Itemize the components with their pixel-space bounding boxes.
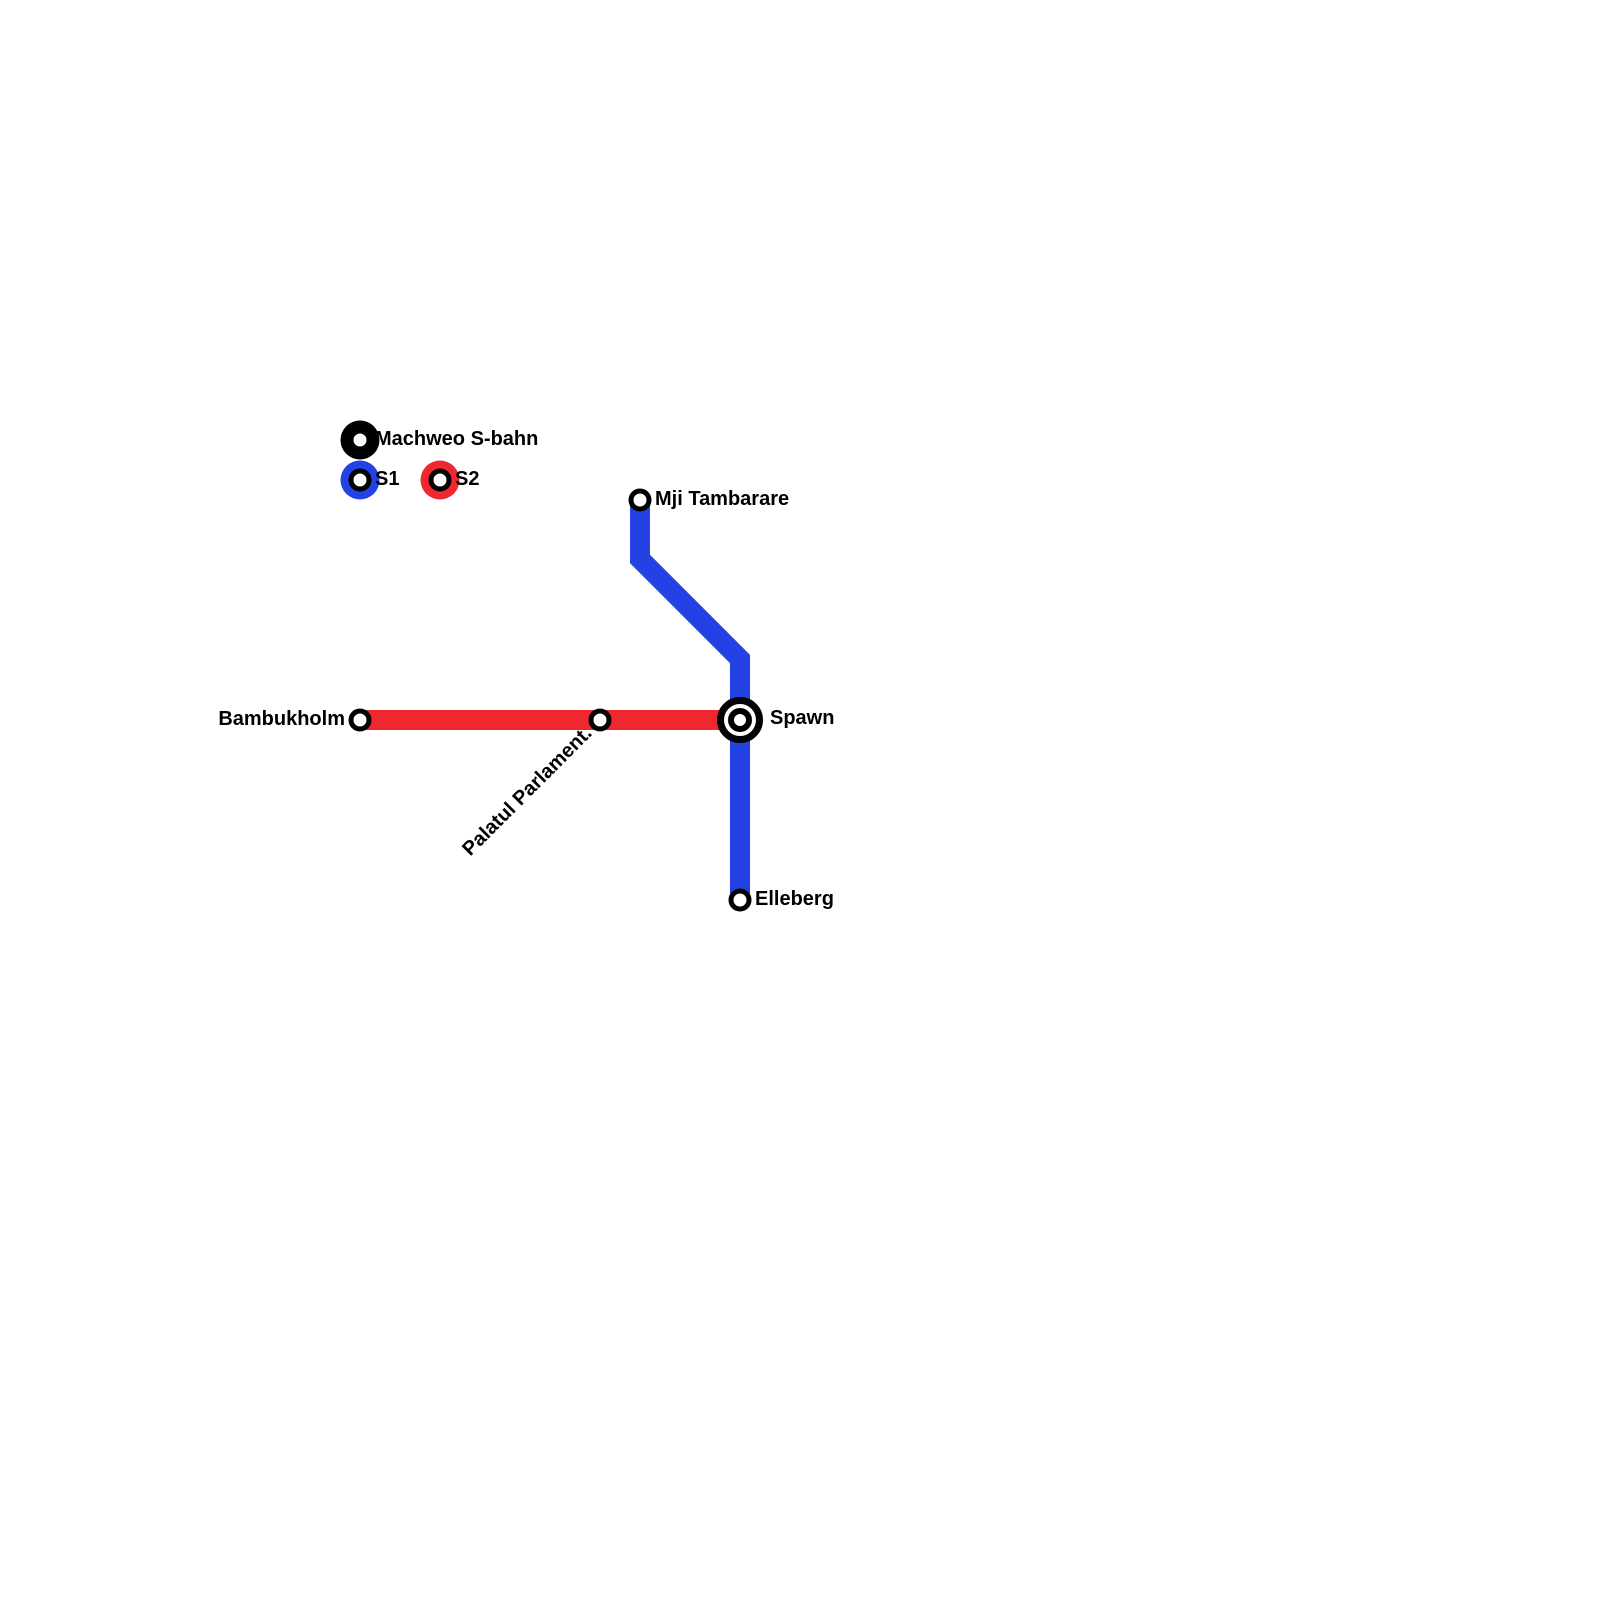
svg-text:Machweo S-bahn: Machweo S-bahn bbox=[375, 428, 538, 450]
svg-text:Mji Tambarare: Mji Tambarare bbox=[655, 488, 789, 510]
station Palatul Parlament marker bbox=[591, 711, 609, 729]
legend line S1 icon blue disc bbox=[341, 461, 380, 500]
svg-text:Bambukholm: Bambukholm bbox=[218, 708, 345, 730]
legend network icon black disc bbox=[341, 421, 380, 460]
svg-text:Elleberg: Elleberg bbox=[755, 888, 834, 910]
svg-text:S2: S2 bbox=[455, 468, 479, 490]
station Mji Tambarare marker bbox=[631, 491, 649, 509]
station Spawn interchange marker bbox=[721, 701, 760, 740]
station Elleberg marker bbox=[731, 891, 749, 909]
line S1 blue Mji Tambarare-Elleberg bbox=[640, 500, 740, 900]
svg-text:S1: S1 bbox=[375, 468, 399, 490]
station Bambukholm marker bbox=[351, 711, 369, 729]
legend line S2 icon red disc bbox=[421, 461, 460, 500]
line S2 red Bambukholm-Spawn bbox=[360, 710, 740, 730]
svg-text:Spawn: Spawn bbox=[770, 707, 834, 729]
